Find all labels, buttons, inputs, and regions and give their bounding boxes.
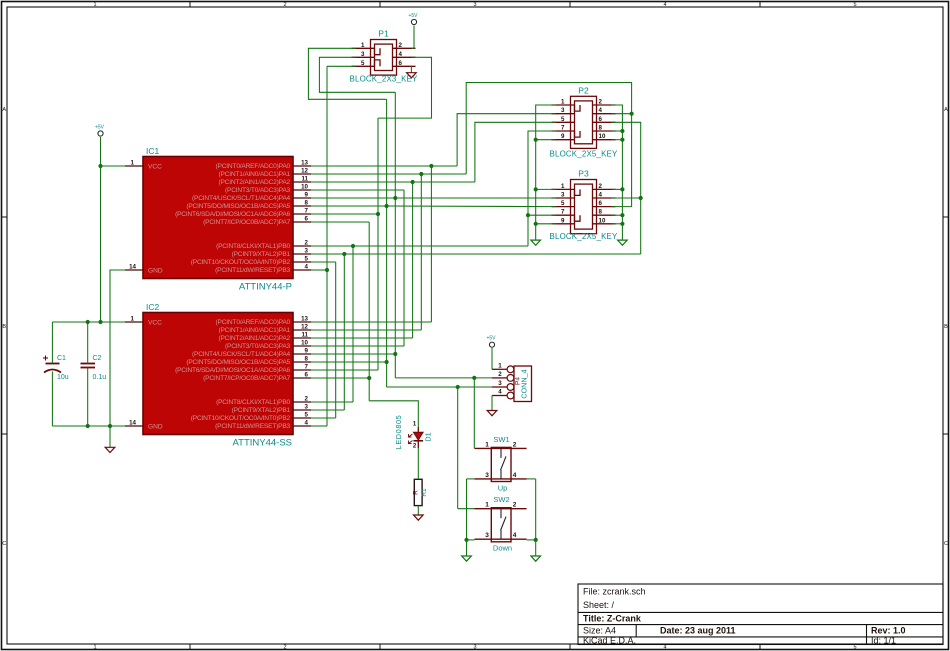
- capacitor C2 0.1u: [81, 363, 96, 365]
- wire IC2 PB0 row: [311, 401, 353, 403]
- svg-text:(PCINT4/USCK/SCL/T1/ADC4)PA4: (PCINT4/USCK/SCL/T1/ADC4)PA4: [192, 351, 291, 358]
- IC1 pin 14 GND: [125, 269, 143, 271]
- svg-text:9: 9: [305, 348, 309, 355]
- wire IC2 PA6 row: [311, 369, 378, 371]
- SW1 pins 3-4 bottom line: [475, 478, 527, 480]
- P1 pin 1: [352, 47, 375, 49]
- junction at 622.4,215.2: [620, 213, 624, 217]
- IC2 pin 3 PB1: [293, 409, 311, 411]
- svg-text:BLOCK_2X5_KEY: BLOCK_2X5_KEY: [550, 232, 618, 241]
- wire P3 pin9 tap: [536, 223, 556, 225]
- svg-text:4: 4: [599, 192, 603, 199]
- svg-text:D1: D1: [424, 432, 433, 441]
- P3 pin 10: [593, 223, 616, 225]
- wire IC1 PA7 row: [311, 221, 369, 223]
- svg-text:4: 4: [305, 264, 309, 271]
- junction at 535.7,223.8: [534, 222, 538, 226]
- svg-text:3: 3: [473, 645, 476, 651]
- P2 pin 8: [593, 130, 616, 132]
- wire SW1 bottom left drop: [467, 478, 475, 480]
- svg-text:2: 2: [283, 645, 286, 651]
- svg-text:10: 10: [599, 133, 606, 140]
- svg-text:Down: Down: [493, 544, 512, 553]
- junction at 386.6,206: [385, 204, 389, 208]
- svg-text:2: 2: [599, 99, 603, 106]
- svg-text:(PCINT1/AIN0/ADC1)PA1: (PCINT1/AIN0/ADC1)PA1: [218, 171, 290, 178]
- svg-text:1: 1: [93, 2, 96, 8]
- wire net PB3 vertical: [326, 66, 328, 426]
- wire IC1 PA6 row: [311, 213, 378, 215]
- P1 pin 5: [352, 65, 375, 67]
- P2 pin 4: [593, 113, 616, 115]
- wire IC2 PA1 row: [311, 329, 421, 331]
- svg-text:(PCINT6/SDA/DI/MOSI/OC1A/ADC6): (PCINT6/SDA/DI/MOSI/OC1A/ADC6)PA6: [175, 211, 290, 218]
- SW2 actuator: [500, 509, 502, 519]
- junction at 431.4,166: [429, 164, 433, 168]
- wire net PB2 vertical: [335, 262, 337, 418]
- wire net PA6 vertical: [377, 118, 379, 370]
- IC1 pin 9 PA4: [293, 197, 311, 199]
- svg-text:1: 1: [498, 362, 502, 369]
- svg-text:SW1: SW1: [493, 435, 509, 444]
- svg-text:VCC: VCC: [148, 320, 162, 327]
- svg-text:2: 2: [513, 441, 517, 448]
- svg-text:C2: C2: [93, 355, 102, 362]
- svg-text:1: 1: [485, 441, 489, 448]
- svg-text:10: 10: [301, 184, 308, 191]
- junction at 535.7,539.9: [534, 538, 538, 542]
- svg-text:Sheet: /: Sheet: /: [583, 600, 615, 610]
- wire P1 pin4 to PA6 column: [378, 57, 432, 118]
- svg-text:6: 6: [305, 216, 309, 223]
- svg-text:5: 5: [561, 200, 565, 207]
- junction at 640.7,198: [639, 196, 643, 200]
- wire P1 pin6 to ground: [410, 66, 412, 72]
- wire C2 bottom lead: [87, 368, 89, 427]
- junction at 87.7,426: [86, 424, 90, 428]
- ground symbol at P1 pin6: [407, 73, 417, 78]
- svg-text:(PCINT0/AREF/ADC0)PA0: (PCINT0/AREF/ADC0)PA0: [216, 163, 291, 170]
- svg-text:7: 7: [305, 208, 309, 215]
- svg-text:ATTINY44-SS: ATTINY44-SS: [233, 438, 292, 449]
- P2 pin 3: [552, 113, 575, 115]
- P3 pin 4: [593, 197, 616, 199]
- junction at 474.3,377.9: [472, 376, 476, 380]
- wire P4 pin4 to ground: [491, 396, 493, 411]
- svg-text:File: zcrank.sch: File: zcrank.sch: [583, 587, 646, 597]
- svg-text:2: 2: [283, 2, 286, 8]
- svg-text:A: A: [944, 107, 948, 113]
- P2 pin 2: [593, 104, 616, 106]
- svg-text:10: 10: [301, 340, 308, 347]
- svg-text:14: 14: [129, 264, 136, 271]
- wire IC2 PB1 row: [311, 409, 344, 411]
- wire P2 pin8 tap: [612, 130, 623, 132]
- svg-text:6: 6: [599, 200, 603, 207]
- wire IC1 VCC pin to +5V riser: [101, 165, 126, 167]
- wire IC1 PB0 row to P2 pin7 riser: [311, 245, 528, 247]
- P4 pin 2: [492, 377, 507, 379]
- svg-text:IC2: IC2: [146, 302, 160, 312]
- IC2 pin 4 PB3: [293, 425, 311, 427]
- svg-text:9: 9: [561, 133, 565, 140]
- svg-text:3: 3: [498, 380, 502, 387]
- P3 pin 9: [552, 223, 575, 225]
- svg-text:(PCINT7/ICP/OC0B/ADC7)PA7: (PCINT7/ICP/OC0B/ADC7)PA7: [203, 219, 290, 226]
- wire PA2 riser to P2 pin5: [475, 122, 556, 182]
- wire +5V riser to VCC rail: [100, 137, 102, 322]
- wire SW2 bottom right ext: [527, 539, 536, 541]
- svg-text:P2: P2: [578, 85, 589, 95]
- svg-text:1: 1: [93, 645, 96, 651]
- power +5V symbol at P4: [489, 342, 494, 347]
- wire P2 pin4 tap: [612, 113, 632, 115]
- svg-text:3: 3: [561, 107, 565, 114]
- P3 pin 6: [593, 206, 616, 208]
- wire net PB1 vertical: [343, 254, 345, 410]
- svg-text:4: 4: [663, 645, 666, 651]
- P2 pin 1: [552, 104, 575, 106]
- connector P2 body: [571, 96, 597, 148]
- wire IC2 PB3 row: [311, 425, 327, 427]
- junction at 344.3,254: [342, 252, 346, 256]
- svg-text:Rev: 1.0: Rev: 1.0: [871, 626, 906, 636]
- IC1 pin 10 PA3: [293, 189, 311, 191]
- IC1 pin 7 PA6: [293, 213, 311, 215]
- wire P2 pin7 riser: [528, 131, 556, 246]
- wire net PA0 vertical: [430, 166, 432, 322]
- SW2 pins 1-2 top line: [475, 508, 527, 510]
- wire IC1 PA0 row: [311, 165, 457, 167]
- svg-text:+5V: +5V: [486, 336, 496, 342]
- svg-text:BLOCK_2X5_KEY: BLOCK_2X5_KEY: [550, 150, 618, 159]
- connector P3 body: [571, 180, 597, 234]
- IC1 pin 1 VCC: [125, 165, 143, 167]
- switch SW2 body: [491, 508, 511, 542]
- wire C1 bottom lead: [51, 372, 53, 427]
- svg-text:LED0805: LED0805: [394, 415, 403, 450]
- svg-text:13: 13: [301, 160, 308, 167]
- P1 pin 2: [393, 47, 416, 49]
- P4 pin 4: [492, 395, 507, 397]
- P3 pin 5: [552, 206, 575, 208]
- svg-text:5: 5: [853, 2, 856, 8]
- svg-text:7: 7: [561, 125, 565, 132]
- svg-text:(PCINT4/USCK/SCL/T1/ADC4)PA4: (PCINT4/USCK/SCL/T1/ADC4)PA4: [192, 195, 291, 202]
- svg-text:9: 9: [305, 192, 309, 199]
- svg-text:7: 7: [561, 209, 565, 216]
- svg-text:Title: Z-Crank: Title: Z-Crank: [583, 614, 642, 624]
- svg-text:(PCINT2/AIN1/ADC2)PA2: (PCINT2/AIN1/ADC2)PA2: [218, 335, 290, 342]
- ground symbol below C1 C2 rail: [105, 447, 115, 452]
- svg-text:+5V: +5V: [95, 125, 105, 131]
- svg-text:C: C: [944, 541, 948, 547]
- title block: [578, 584, 943, 645]
- IC1 pin 6 PA7: [293, 221, 311, 223]
- svg-text:VCC: VCC: [148, 164, 162, 171]
- svg-text:8: 8: [305, 200, 309, 207]
- power +5V symbol left: [98, 131, 103, 136]
- IC IC1 ATTINY44-P body: [143, 157, 293, 279]
- wire C1 top lead: [51, 322, 53, 364]
- svg-text:P3: P3: [578, 169, 589, 179]
- wire SW2 bottom left ext: [467, 539, 475, 541]
- wire IC2 PA7 row: [311, 377, 369, 379]
- junction at 87.7,322: [86, 320, 90, 324]
- svg-text:(PCINT3/T0/ADC3)PA3: (PCINT3/T0/ADC3)PA3: [225, 343, 290, 350]
- connector P1 body: [371, 40, 397, 76]
- wire net PA2 vertical: [412, 182, 414, 338]
- wire IC1 PB3 row: [311, 269, 327, 271]
- wire P2 pin10 tap: [612, 139, 623, 141]
- svg-text:Date: 23 aug 2011: Date: 23 aug 2011: [660, 626, 736, 636]
- svg-text:3: 3: [361, 51, 365, 58]
- svg-text:5: 5: [305, 412, 309, 419]
- wire net PA1 vertical: [420, 174, 422, 330]
- wire P1 pin5 to PB3 column: [327, 65, 356, 67]
- junction at 528,215.2: [526, 213, 530, 217]
- wire P3 pin8 tap: [612, 214, 623, 216]
- svg-text:10: 10: [599, 217, 606, 224]
- svg-text:(PCINT8/CLKI/XTAL1)PB0: (PCINT8/CLKI/XTAL1)PB0: [216, 399, 290, 406]
- svg-text:(PCINT6/SDA/DI/MOSI/OC1A/ADC6): (PCINT6/SDA/DI/MOSI/OC1A/ADC6)PA6: [175, 367, 290, 374]
- svg-text:2: 2: [305, 396, 309, 403]
- junction at 395.3,354: [393, 352, 397, 356]
- svg-text:5: 5: [561, 116, 565, 123]
- SW1 actuator: [500, 448, 502, 458]
- wire net PA7 vertical: [368, 222, 370, 401]
- wire P2 pin9 tap: [536, 139, 556, 141]
- P3 pin 1: [552, 188, 575, 190]
- junction at 631.6,113.7: [630, 112, 634, 116]
- junction at 100.5,166: [98, 164, 102, 168]
- junction at 421.3,174: [419, 172, 423, 176]
- svg-text:1: 1: [561, 183, 565, 190]
- wire IC1 PB1 row to P2 pin6 riser: [311, 253, 641, 255]
- P4 pin 3: [492, 386, 507, 388]
- svg-text:7: 7: [305, 364, 309, 371]
- IC1 pin 2 PB0: [293, 245, 311, 247]
- svg-text:1: 1: [131, 160, 135, 167]
- svg-text:B: B: [944, 324, 948, 330]
- IC1 pin 8 PA5: [293, 205, 311, 207]
- IC2 pin 1 VCC: [125, 321, 143, 323]
- junction at 353,246: [351, 244, 355, 248]
- wire P3 pin1 tap: [536, 188, 556, 190]
- svg-text:GND: GND: [148, 424, 163, 431]
- power +5V symbol at P1: [411, 19, 416, 24]
- IC2 pin 8 PA5: [293, 361, 311, 363]
- svg-text:(PCINT5/DO/MISO/OC1B/ADC5)PA5: (PCINT5/DO/MISO/OC1B/ADC5)PA5: [186, 203, 290, 210]
- wire right ground chain P2 P3: [612, 105, 623, 240]
- IC2 pin 12 PA1: [293, 329, 311, 331]
- svg-text:8: 8: [599, 125, 603, 132]
- ground symbol below SW2 right: [531, 556, 541, 561]
- IC2 pin 11 PA2: [293, 337, 311, 339]
- ground symbol at P4 pin4: [487, 411, 497, 416]
- wire P2 pin6 riser: [612, 122, 641, 254]
- wire PA0 riser to P2 pin3: [457, 114, 555, 166]
- junction at 412.6,182: [411, 180, 415, 184]
- wire PA1 riser to top loop: [466, 83, 631, 207]
- P3 pin 7: [552, 214, 575, 216]
- svg-text:3: 3: [561, 192, 565, 199]
- svg-text:4: 4: [663, 2, 666, 8]
- svg-text:ATTINY44-P: ATTINY44-P: [239, 282, 292, 293]
- svg-text:C1: C1: [57, 355, 66, 362]
- svg-text:(PCINT11/dW/RESET)PB3: (PCINT11/dW/RESET)PB3: [215, 423, 290, 430]
- resistor R1: [414, 479, 422, 505]
- IC1 pin 11 PA2: [293, 181, 311, 183]
- svg-text:6: 6: [599, 116, 603, 123]
- wire GND rail: [52, 425, 125, 427]
- svg-text:0.1u: 0.1u: [93, 374, 107, 381]
- svg-text:2: 2: [513, 502, 517, 509]
- svg-text:A: A: [2, 107, 6, 113]
- wire IC2 PB2 row: [311, 417, 336, 419]
- switch SW1 body: [491, 447, 511, 481]
- wire net PA3 vertical: [403, 190, 405, 346]
- svg-text:8: 8: [599, 209, 603, 216]
- wire SW2 top left ext: [458, 508, 475, 510]
- svg-text:3: 3: [473, 2, 476, 8]
- IC2 pin 14 GND: [125, 425, 143, 427]
- IC2 pin 9 PA4: [293, 353, 311, 355]
- wire P3 pin10 tap: [612, 223, 623, 225]
- wire SW2 riser net PA5: [457, 387, 459, 509]
- P2 pin 6: [593, 121, 616, 123]
- junction at 110,426: [108, 424, 112, 428]
- svg-text:B: B: [2, 324, 6, 330]
- svg-text:Size: A4: Size: A4: [583, 626, 616, 636]
- P1 pin 3: [352, 56, 375, 58]
- svg-text:4: 4: [513, 472, 517, 479]
- wire IC2 PA4 row: [311, 353, 395, 355]
- P3 pin 3: [552, 197, 575, 199]
- svg-text:4: 4: [305, 420, 309, 427]
- svg-text:(PCINT11/dW/RESET)PB3: (PCINT11/dW/RESET)PB3: [215, 267, 290, 274]
- svg-text:3: 3: [305, 404, 309, 411]
- svg-text:3: 3: [305, 248, 309, 255]
- svg-text:(PCINT7/ICP/OC0B/ADC7)PA7: (PCINT7/ICP/OC0B/ADC7)PA7: [203, 375, 290, 382]
- svg-text:SW2: SW2: [493, 495, 509, 504]
- svg-text:+5V: +5V: [408, 13, 418, 19]
- svg-text:11: 11: [301, 176, 308, 183]
- svg-text:1: 1: [361, 42, 365, 49]
- junction at 622.4,139.7: [620, 138, 624, 142]
- wire SW1 riser net PA4: [473, 378, 475, 449]
- wire IC1 PA4 row to P3 pin3: [311, 197, 556, 199]
- svg-text:GND: GND: [148, 268, 163, 275]
- wire SW1 bottom right ext: [527, 478, 536, 480]
- svg-text:2: 2: [305, 240, 309, 247]
- svg-text:8: 8: [305, 356, 309, 363]
- P2 pin 10: [593, 139, 616, 141]
- svg-text:4: 4: [513, 532, 517, 539]
- IC2 pin 5 PB2: [293, 417, 311, 419]
- svg-text:2: 2: [599, 183, 603, 190]
- svg-text:1: 1: [131, 316, 135, 323]
- LED D1 LED0805: [417, 427, 419, 432]
- junction at 622.4,131: [620, 129, 624, 133]
- wire IC1 PB2 row: [311, 261, 336, 263]
- svg-text:12: 12: [301, 168, 308, 175]
- svg-text:2: 2: [498, 371, 502, 378]
- svg-text:C: C: [2, 541, 6, 547]
- svg-text:(PCINT3/T0/ADC3)PA3: (PCINT3/T0/ADC3)PA3: [225, 187, 290, 194]
- svg-text:13: 13: [301, 316, 308, 323]
- wire P3 pin7 tap: [528, 214, 556, 216]
- svg-text:(PCINT9/XTAL2)PB1: (PCINT9/XTAL2)PB1: [232, 407, 291, 414]
- svg-text:CONN_4: CONN_4: [520, 369, 529, 398]
- wire P1 pin2 to +5V: [412, 26, 415, 49]
- wire IC1 PA3 row: [311, 189, 404, 191]
- P2 pin 9: [552, 139, 575, 141]
- wire P3 pin2 tap: [612, 188, 623, 190]
- P4 pin 1: [492, 368, 507, 370]
- svg-text:R1: R1: [421, 488, 428, 497]
- wire net PA4 vertical: [394, 92, 396, 378]
- junction at 622.4,223.8: [620, 222, 624, 226]
- svg-text:P1: P1: [378, 29, 389, 39]
- wire LED feed net PA7: [369, 401, 418, 427]
- wire IC1 PA1 row: [311, 173, 466, 175]
- svg-text:10u: 10u: [57, 374, 69, 381]
- svg-text:KiCad E.D.A.: KiCad E.D.A.: [583, 636, 636, 646]
- svg-text:6: 6: [305, 372, 309, 379]
- junction at 535.7,139.7: [534, 138, 538, 142]
- svg-text:5: 5: [361, 60, 365, 67]
- IC2 pin 6 PA7: [293, 377, 311, 379]
- svg-text:4: 4: [599, 107, 603, 114]
- svg-text:Up: Up: [498, 483, 508, 492]
- IC1 pin 5 PB2: [293, 261, 311, 263]
- svg-text:R: R: [413, 490, 420, 495]
- svg-text:11: 11: [301, 332, 308, 339]
- junction at 369.2,378: [367, 376, 371, 380]
- svg-text:14: 14: [129, 420, 136, 427]
- ground symbol right of P2 P3 chain: [618, 240, 628, 245]
- wire P4 pin2 row net PA4: [395, 377, 492, 379]
- IC2 pin 2 PB0: [293, 401, 311, 403]
- wire VCC rail: [52, 321, 125, 323]
- P3 pin 8: [593, 214, 616, 216]
- svg-text:3: 3: [485, 472, 489, 479]
- svg-text:(PCINT10/CKOUT/OC0A/INT0)PB2: (PCINT10/CKOUT/OC0A/INT0)PB2: [191, 415, 291, 422]
- svg-text:(PCINT5/DO/MISO/OC1B/ADC5)PA5: (PCINT5/DO/MISO/OC1B/ADC5)PA5: [186, 359, 290, 366]
- P1 pin 6: [393, 65, 416, 67]
- svg-text:3: 3: [485, 532, 489, 539]
- wire LED to R1: [417, 448, 419, 479]
- junction at 457.7,387: [456, 385, 460, 389]
- wire IC2 PA2 row: [311, 337, 413, 339]
- svg-text:(PCINT2/AIN1/ADC2)PA2: (PCINT2/AIN1/ADC2)PA2: [218, 179, 290, 186]
- wire IC2 PA0 row: [311, 321, 431, 323]
- P2 pin 7: [552, 130, 575, 132]
- wire net PB0 vertical: [352, 246, 354, 402]
- IC1 pin 4 PB3: [293, 269, 311, 271]
- wire IC1 PA5 row to P3 pin5: [311, 205, 556, 208]
- svg-text:4: 4: [399, 51, 403, 58]
- wire net PA5 vertical: [386, 99, 388, 387]
- junction at 386.6,362: [385, 360, 389, 364]
- junction at 327,270: [325, 268, 329, 272]
- wire SW1 to SW2 left: [466, 479, 468, 540]
- svg-text:BLOCK_2X3_KEY: BLOCK_2X3_KEY: [350, 75, 418, 84]
- wire IC1 GND down to rail and ground: [110, 270, 125, 447]
- svg-text:12: 12: [301, 324, 308, 331]
- svg-text:(PCINT1/AIN0/ADC1)PA1: (PCINT1/AIN0/ADC1)PA1: [218, 327, 290, 334]
